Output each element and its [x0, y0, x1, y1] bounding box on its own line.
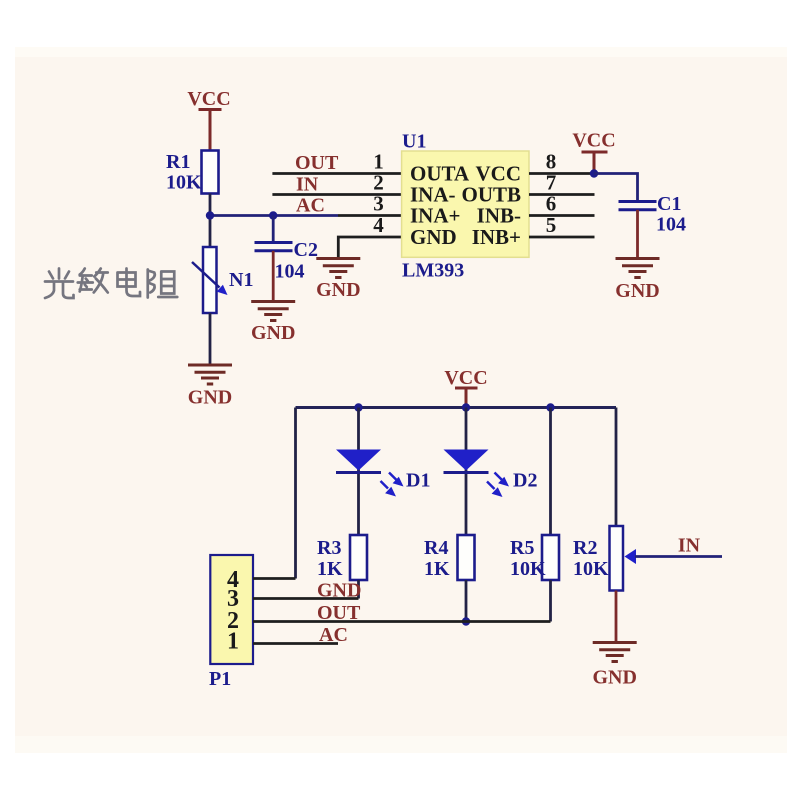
net label VCC (top-left): [187, 88, 230, 110]
power symbol VCC (bottom): [455, 388, 478, 408]
svg-text:R4: R4: [424, 537, 448, 559]
wire/pin 2 of U1: [272, 193, 402, 196]
net label IN: [296, 174, 319, 196]
svg-text:GND: GND: [317, 580, 361, 602]
svg-text:N1: N1: [229, 269, 253, 291]
svg-text:104: 104: [656, 214, 686, 236]
wire pin8 node to C1: [594, 174, 638, 202]
wire R4 bottom to OUT net: [465, 580, 468, 622]
op-amp U1 body (LM393): [402, 151, 529, 257]
wire D1 column: [357, 408, 360, 536]
net label VCC (top-right): [572, 130, 615, 152]
svg-text:IN: IN: [678, 535, 701, 557]
wire R2 wiper to IN: [635, 555, 722, 558]
svg-text:OUT: OUT: [317, 602, 361, 624]
capacitor C2: [255, 216, 293, 251]
svg-text:P1: P1: [209, 668, 231, 690]
svg-text:3: 3: [373, 192, 384, 216]
svg-text:GND: GND: [615, 280, 659, 302]
svg-text:GND: GND: [316, 279, 360, 301]
LED D2 emission arrows: [487, 473, 509, 498]
pin 3 of U1: [338, 214, 402, 217]
svg-text:U1: U1: [402, 131, 426, 153]
svg-text:C1: C1: [657, 193, 681, 215]
svg-text:6: 6: [546, 192, 557, 216]
P1 pin digit 3: [227, 586, 239, 612]
svg-text:GND: GND: [410, 225, 457, 249]
P1 pin digit 2: [227, 608, 239, 634]
label D1: [406, 470, 430, 492]
label R5 10K: [510, 537, 546, 580]
label C1 104: [656, 193, 686, 236]
junction node R5 rail: [546, 403, 554, 411]
wire R1 bottom to node: [209, 194, 212, 248]
label C2 104: [275, 239, 318, 283]
P1 pin digit 4: [227, 567, 239, 593]
part number LM393: [402, 260, 464, 282]
resistor R3: [350, 535, 367, 580]
wire C2 to ground: [272, 251, 275, 301]
label N1: [229, 269, 253, 291]
VCC rail wire: [296, 406, 617, 409]
wire R5 bottom to OUT net: [549, 580, 552, 622]
svg-text:GND: GND: [592, 667, 636, 689]
pin number 2: [373, 171, 384, 195]
label R4 1K: [424, 537, 450, 580]
U1 pin name INA+ / INB-: [410, 204, 521, 228]
U1 pin name GND / INB+: [410, 225, 521, 249]
ground symbol (C2): [251, 302, 295, 321]
pin 5 of U1: [529, 236, 595, 239]
capacitor C1: [619, 202, 657, 210]
connector P1: [210, 555, 253, 664]
wire N1 bottom to ground: [209, 313, 212, 364]
resistor R1: [202, 151, 219, 194]
P1 pin 3 wire (GND net): [253, 597, 359, 600]
svg-text:10K: 10K: [573, 558, 609, 580]
svg-text:4: 4: [373, 213, 384, 237]
label R1 10K: [166, 151, 202, 194]
resistor R5: [542, 535, 559, 580]
junction node at R1/N1: [206, 211, 214, 219]
net label AC (P1 pin1): [319, 624, 348, 646]
P1 pin 4 wire: [253, 577, 296, 580]
阻: [148, 270, 178, 298]
svg-text:1K: 1K: [424, 558, 450, 580]
label GND (pin 4): [316, 279, 360, 301]
wire/pin 1 of U1: [272, 172, 402, 175]
wire D2 column: [465, 408, 468, 536]
pin number 5: [546, 213, 557, 237]
label R3 1K: [317, 537, 343, 580]
power symbol VCC (top-left): [199, 110, 222, 152]
svg-text:GND: GND: [251, 322, 295, 344]
svg-text:VCC: VCC: [572, 130, 615, 152]
pin 4 of U1 with drop to ground: [338, 237, 402, 258]
svg-text:104: 104: [275, 261, 305, 283]
junction node VCC rail: [462, 403, 470, 411]
label D2: [513, 470, 537, 492]
pin number 7: [546, 171, 557, 195]
label GND (C2): [251, 322, 295, 344]
pin 6 of U1: [529, 214, 595, 217]
svg-text:R3: R3: [317, 537, 341, 559]
pin number 6: [546, 192, 557, 216]
P1 pin digit 1: [227, 629, 239, 655]
label R2 10K: [573, 537, 609, 580]
wire rail down-left to P1 pin 4: [294, 408, 297, 579]
LED D2: [444, 450, 489, 473]
LED D1: [336, 450, 381, 473]
pin number 8: [546, 150, 557, 174]
wire node to AC line (horizontal): [210, 214, 338, 217]
P1 pin 2 wire (OUT net): [253, 620, 551, 623]
svg-text:10K: 10K: [166, 172, 202, 194]
junction node D1 rail: [354, 403, 362, 411]
svg-text:D1: D1: [406, 470, 430, 492]
svg-text:VCC: VCC: [187, 88, 230, 110]
power symbol VCC (top-right): [582, 152, 608, 173]
wire R3 bottom to GND net: [357, 580, 360, 599]
U1 pin name OUTA / VCC: [410, 162, 521, 186]
label GND (below N1): [188, 387, 232, 409]
ground symbol (pin 4): [316, 259, 360, 278]
svg-text:GND: GND: [188, 387, 232, 409]
Chinese caption 光敏电阻 (drawn strokes): [45, 269, 177, 299]
net label GND (P1 pin3): [317, 580, 361, 602]
junction node R4/OUT: [462, 617, 470, 625]
svg-text:R5: R5: [510, 537, 534, 559]
pin 7 of U1: [529, 193, 595, 196]
svg-text:AC: AC: [319, 624, 348, 646]
wire R2 bottom to ground: [615, 591, 618, 642]
ground symbol (C1): [616, 259, 660, 278]
net label AC: [296, 195, 325, 217]
svg-text:LM393: LM393: [402, 260, 464, 282]
junction node at C2 tap: [269, 211, 277, 219]
wire C1 to ground: [636, 210, 639, 258]
svg-text:INB-: INB-: [477, 204, 521, 228]
ground symbol (R2): [593, 643, 637, 662]
pin number 4: [373, 213, 384, 237]
junction node pin8/VCC: [590, 169, 598, 177]
resistor R4: [458, 535, 475, 580]
net label OUT: [295, 152, 339, 174]
svg-text:VCC: VCC: [444, 367, 487, 389]
svg-text:INB+: INB+: [472, 225, 521, 249]
pin number 3: [373, 192, 384, 216]
ground symbol (below N1): [188, 365, 232, 384]
svg-text:10K: 10K: [510, 558, 546, 580]
label GND (C1): [615, 280, 659, 302]
svg-text:1: 1: [227, 629, 239, 655]
U1 pin name INA- / OUTB: [410, 183, 521, 207]
wire R2 column top: [615, 408, 618, 527]
svg-text:R1: R1: [166, 151, 190, 173]
LED D1 emission arrows: [381, 473, 404, 497]
photoresistor N1: [192, 247, 228, 313]
svg-text:1K: 1K: [317, 558, 343, 580]
net label IN (right): [678, 535, 701, 557]
svg-text:OUT: OUT: [295, 152, 339, 174]
pin number 1: [373, 150, 384, 174]
potentiometer R2: [610, 526, 637, 591]
designator P1: [209, 668, 231, 690]
svg-text:C2: C2: [294, 239, 318, 261]
svg-text:D2: D2: [513, 470, 537, 492]
label GND (R2): [592, 667, 636, 689]
光: [45, 269, 74, 299]
pin 8 of U1: [529, 172, 594, 175]
svg-text:INA+: INA+: [410, 204, 460, 228]
svg-text:R2: R2: [573, 537, 597, 559]
svg-text:AC: AC: [296, 195, 325, 217]
P1 pin 1 wire (AC net): [253, 642, 338, 645]
敏: [78, 269, 108, 293]
net label VCC (bottom): [444, 367, 487, 389]
svg-text:IN: IN: [296, 174, 319, 196]
电: [118, 269, 141, 297]
designator U1: [402, 131, 426, 153]
wire R5 column top: [549, 408, 552, 536]
svg-text:5: 5: [546, 213, 557, 237]
net label OUT (P1 pin2): [317, 602, 361, 624]
